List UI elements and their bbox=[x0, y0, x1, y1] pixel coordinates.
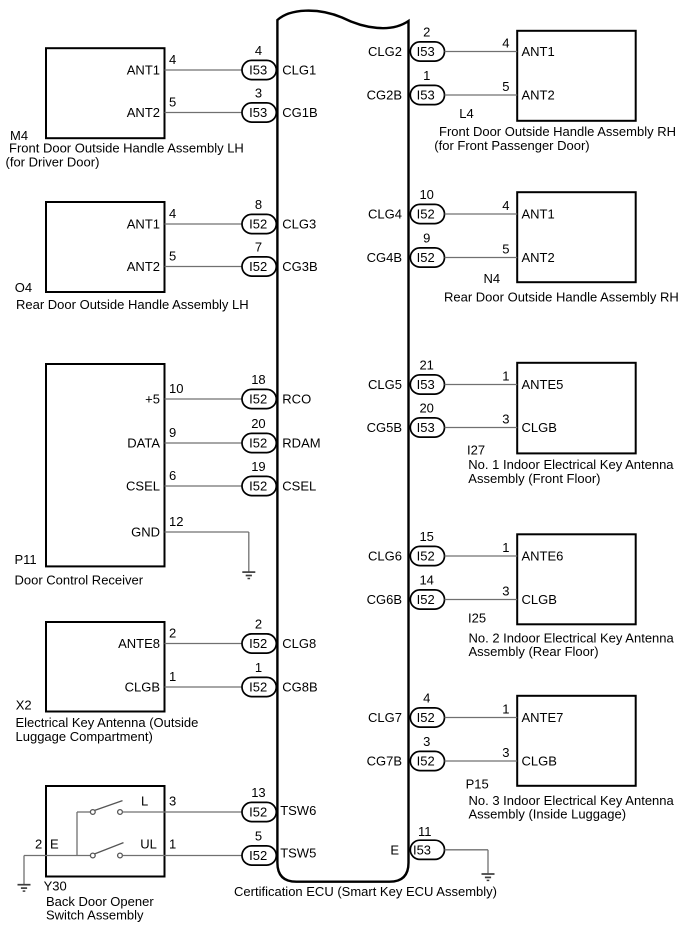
ground at P11 GND bbox=[242, 572, 255, 578]
svg-text:1: 1 bbox=[502, 369, 509, 384]
wire X2 CLGB to ECU CG8B bbox=[165, 686, 243, 688]
svg-text:19: 19 bbox=[251, 459, 265, 474]
svg-text:I53: I53 bbox=[413, 842, 431, 857]
wire M4 ANT2 to ECU CG1B bbox=[165, 112, 243, 114]
wire ECU CLG4 to N4 ANT1 bbox=[445, 213, 518, 215]
svg-text:I53: I53 bbox=[249, 63, 267, 78]
svg-text:3: 3 bbox=[502, 412, 509, 427]
connector oval I52 at ECU pin CG7B bbox=[410, 751, 444, 770]
svg-text:Switch Assembly: Switch Assembly bbox=[46, 908, 144, 923]
svg-text:2: 2 bbox=[169, 626, 176, 641]
svg-text:20: 20 bbox=[251, 416, 265, 431]
svg-text:I53: I53 bbox=[249, 105, 267, 120]
svg-text:4: 4 bbox=[169, 206, 176, 221]
svg-text:I52: I52 bbox=[249, 392, 267, 407]
component Y30: Back Door Opener Switch Assembly (box) bbox=[46, 786, 165, 877]
wire ECU CG7B to P15 CLGB bbox=[445, 760, 518, 762]
svg-text:I52: I52 bbox=[249, 636, 267, 651]
svg-text:3: 3 bbox=[423, 734, 430, 749]
svg-text:13: 13 bbox=[251, 785, 265, 800]
connector oval I53 at ECU pin CLG1 bbox=[242, 60, 276, 79]
svg-text:I25: I25 bbox=[468, 610, 486, 625]
wire switch L to box edge bbox=[122, 811, 164, 813]
svg-text:X2: X2 bbox=[16, 697, 32, 712]
connector oval I53 at ECU pin CLG5 bbox=[410, 375, 444, 394]
wire E common entering Y30 (from ground) bbox=[24, 855, 90, 857]
svg-text:5: 5 bbox=[169, 249, 176, 264]
svg-text:1: 1 bbox=[169, 837, 176, 852]
svg-text:CG1B: CG1B bbox=[282, 105, 317, 120]
svg-text:9: 9 bbox=[423, 231, 430, 246]
svg-text:CLG4: CLG4 bbox=[368, 207, 402, 222]
component L4: Front Door Outside Handle Assembly RH (box) bbox=[517, 31, 636, 121]
wire switch UL to box edge bbox=[122, 855, 164, 857]
svg-text:I52: I52 bbox=[417, 710, 435, 725]
svg-text:1: 1 bbox=[423, 68, 430, 83]
svg-text:(for Driver Door): (for Driver Door) bbox=[6, 155, 100, 170]
svg-text:CG7B: CG7B bbox=[367, 754, 402, 769]
svg-text:3: 3 bbox=[502, 745, 509, 760]
wire ECU E to ground bbox=[445, 849, 489, 851]
svg-text:RCO: RCO bbox=[282, 392, 311, 407]
svg-text:ANT1: ANT1 bbox=[127, 62, 160, 77]
svg-text:E: E bbox=[390, 843, 399, 858]
svg-text:CG3B: CG3B bbox=[282, 259, 317, 274]
wire M4 ANT1 to ECU CLG1 bbox=[165, 69, 243, 71]
wire Y30 None to ECU TSW6 bbox=[165, 811, 243, 813]
svg-text:CLGB: CLGB bbox=[522, 420, 557, 435]
svg-text:4: 4 bbox=[255, 43, 262, 58]
svg-text:UL: UL bbox=[140, 837, 157, 852]
svg-text:CLG2: CLG2 bbox=[368, 44, 402, 59]
svg-text:DATA: DATA bbox=[127, 435, 160, 450]
connector oval I52 at ECU pin CG6B bbox=[410, 590, 444, 609]
connector oval I52 at ECU pin TSW5 bbox=[242, 846, 276, 865]
svg-text:I52: I52 bbox=[249, 217, 267, 232]
wire O4 ANT1 to ECU CLG3 bbox=[165, 223, 243, 225]
svg-text:ANTE8: ANTE8 bbox=[118, 636, 160, 651]
svg-text:TSW6: TSW6 bbox=[280, 803, 316, 818]
svg-text:No. 1 Indoor Electrical Key An: No. 1 Indoor Electrical Key Antenna bbox=[468, 457, 674, 472]
svg-text:+5: +5 bbox=[145, 391, 160, 406]
component P15: No.3 Indoor Electrical Key Antenna Assembly (box) bbox=[517, 696, 636, 786]
connector oval I52 at ECU pin CG3B bbox=[242, 257, 276, 276]
svg-text:CLG7: CLG7 bbox=[368, 710, 402, 725]
connector oval I52 at ECU pin CLG7 bbox=[410, 708, 444, 727]
svg-text:18: 18 bbox=[251, 372, 265, 387]
svg-text:Rear Door Outside Handle Assem: Rear Door Outside Handle Assembly LH bbox=[16, 297, 249, 312]
svg-text:4: 4 bbox=[502, 36, 509, 51]
svg-text:6: 6 bbox=[169, 468, 176, 483]
svg-text:11: 11 bbox=[418, 824, 432, 839]
svg-text:3: 3 bbox=[502, 584, 509, 599]
svg-text:ANT2: ANT2 bbox=[522, 250, 555, 265]
ground at Y30 pin E bbox=[18, 885, 31, 891]
connector oval I52 at ECU pin CSEL bbox=[242, 476, 276, 495]
svg-text:(for Front Passenger Door): (for Front Passenger Door) bbox=[434, 138, 589, 153]
svg-text:CLG1: CLG1 bbox=[282, 63, 316, 78]
component P11: Door Control Receiver (box) bbox=[46, 364, 165, 566]
ECU U1: Certification ECU (Smart Key ECU Assembly) body outline bbox=[277, 11, 408, 882]
svg-text:Front Door Outside Handle Asse: Front Door Outside Handle Assembly RH bbox=[439, 124, 676, 139]
svg-text:10: 10 bbox=[419, 187, 433, 202]
wire to switch L left contact bbox=[77, 811, 90, 813]
svg-text:CG4B: CG4B bbox=[367, 250, 402, 265]
svg-text:L4: L4 bbox=[459, 106, 473, 121]
connector oval I53 at ECU pin CLG2 bbox=[410, 42, 444, 61]
connector oval I53 at ECU pin E bbox=[410, 840, 444, 859]
svg-text:2: 2 bbox=[423, 25, 430, 40]
wire ECU CLG7 to P15 ANTE7 bbox=[445, 717, 518, 719]
wire ECU CLG5 to I27 ANTE5 bbox=[445, 384, 518, 386]
component I27: No.1 Indoor Electrical Key Antenna Assembly (box) bbox=[517, 363, 636, 454]
label L4 / Front Door Outside Handle Assembly RH (for Front Passenger Door) bbox=[434, 106, 676, 153]
svg-text:I27: I27 bbox=[467, 442, 485, 457]
svg-text:Electrical Key Antenna (Outsid: Electrical Key Antenna (Outside bbox=[16, 715, 199, 730]
svg-text:CG5B: CG5B bbox=[367, 420, 402, 435]
svg-text:ANTE6: ANTE6 bbox=[522, 548, 564, 563]
svg-text:CG6B: CG6B bbox=[367, 592, 402, 607]
svg-text:L: L bbox=[141, 794, 148, 809]
svg-text:I52: I52 bbox=[249, 680, 267, 695]
svg-text:I53: I53 bbox=[417, 44, 435, 59]
wire ECU CLG2 to L4 ANT1 bbox=[445, 51, 518, 53]
svg-text:ANT1: ANT1 bbox=[127, 216, 160, 231]
svg-text:Rear Door Outside Handle Assem: Rear Door Outside Handle Assembly RH bbox=[444, 289, 679, 304]
svg-text:Y30: Y30 bbox=[44, 879, 67, 894]
connector oval I53 at ECU pin CG5B bbox=[410, 418, 444, 437]
svg-text:4: 4 bbox=[502, 198, 509, 213]
svg-text:Assembly (Inside Luggage): Assembly (Inside Luggage) bbox=[469, 807, 627, 822]
svg-text:3: 3 bbox=[255, 86, 262, 101]
svg-text:CG8B: CG8B bbox=[282, 680, 317, 695]
svg-text:CLG6: CLG6 bbox=[368, 549, 402, 564]
svg-text:TSW5: TSW5 bbox=[280, 846, 316, 861]
svg-text:Luggage Compartment): Luggage Compartment) bbox=[16, 729, 153, 744]
svg-text:I52: I52 bbox=[249, 848, 267, 863]
svg-text:20: 20 bbox=[419, 401, 433, 416]
svg-text:CSEL: CSEL bbox=[126, 478, 160, 493]
svg-text:1: 1 bbox=[255, 660, 262, 675]
svg-text:ANT2: ANT2 bbox=[127, 105, 160, 120]
svg-text:RDAM: RDAM bbox=[282, 436, 320, 451]
svg-text:10: 10 bbox=[169, 381, 183, 396]
component N4: Rear Door Outside Handle Assembly RH (box) bbox=[517, 192, 636, 282]
svg-text:4: 4 bbox=[169, 52, 176, 67]
component X2: Electrical Key Antenna Outside Luggage (box) bbox=[46, 622, 165, 712]
connector oval I52 at ECU pin CLG3 bbox=[242, 214, 276, 233]
svg-text:1: 1 bbox=[502, 702, 509, 717]
connector oval I53 at ECU pin CG2B bbox=[410, 85, 444, 104]
svg-text:Assembly (Rear Floor): Assembly (Rear Floor) bbox=[469, 644, 599, 659]
svg-text:I52: I52 bbox=[417, 592, 435, 607]
wire ECU CG6B to I25 CLGB bbox=[445, 599, 518, 601]
connector oval I52 at ECU pin CG8B bbox=[242, 677, 276, 696]
label P15 / No. 3 Indoor Electrical Key Antenna Assembly (Inside Luggage) bbox=[466, 776, 675, 821]
switch L (upper) of Y30 bbox=[90, 801, 122, 815]
component O4: Rear Door Outside Handle Assembly LH (box) bbox=[46, 202, 165, 292]
svg-text:ANT1: ANT1 bbox=[522, 44, 555, 59]
svg-text:I53: I53 bbox=[417, 377, 435, 392]
wire P11 +5 to ECU RCO bbox=[165, 398, 243, 400]
wire common vertical inside Y30 bbox=[76, 812, 78, 856]
svg-text:ANTE5: ANTE5 bbox=[522, 377, 564, 392]
svg-text:ANTE7: ANTE7 bbox=[522, 710, 564, 725]
svg-text:I52: I52 bbox=[249, 479, 267, 494]
svg-text:CLGB: CLGB bbox=[522, 592, 557, 607]
svg-text:15: 15 bbox=[419, 529, 433, 544]
svg-text:1: 1 bbox=[169, 669, 176, 684]
svg-text:P15: P15 bbox=[466, 776, 489, 791]
svg-text:I52: I52 bbox=[249, 436, 267, 451]
connector oval I52 at ECU pin CLG6 bbox=[410, 546, 444, 565]
svg-text:GND: GND bbox=[131, 524, 160, 539]
svg-text:2: 2 bbox=[255, 617, 262, 632]
wire ECU CLG6 to I25 ANTE6 bbox=[445, 555, 518, 557]
svg-text:9: 9 bbox=[169, 425, 176, 440]
svg-text:5: 5 bbox=[502, 242, 509, 257]
component I25: No.2 Indoor Electrical Key Antenna Assembly (box) bbox=[517, 534, 636, 624]
svg-text:Assembly (Front Floor): Assembly (Front Floor) bbox=[468, 471, 600, 486]
svg-text:CLG8: CLG8 bbox=[282, 636, 316, 651]
svg-text:CLGB: CLGB bbox=[522, 753, 557, 768]
wire ECU CG4B to N4 ANT2 bbox=[445, 257, 518, 259]
svg-text:3: 3 bbox=[169, 794, 176, 809]
label O4 / Rear Door Outside Handle Assembly LH bbox=[15, 280, 249, 312]
wire P11 DATA to ECU RDAM bbox=[165, 442, 243, 444]
svg-text:5: 5 bbox=[169, 95, 176, 110]
wire Y30 None to ECU TSW5 bbox=[165, 855, 243, 857]
svg-text:ANT2: ANT2 bbox=[127, 259, 160, 274]
wire O4 ANT2 to ECU CG3B bbox=[165, 266, 243, 268]
svg-text:4: 4 bbox=[423, 691, 430, 706]
svg-text:I52: I52 bbox=[249, 805, 267, 820]
wire ECU CG2B to L4 ANT2 bbox=[445, 94, 518, 96]
svg-text:E: E bbox=[50, 837, 59, 852]
label M4 / Front Door Outside Handle Assembly LH (for Driver Door) bbox=[6, 128, 244, 170]
svg-text:1: 1 bbox=[502, 540, 509, 555]
wire X2 ANTE8 to ECU CLG8 bbox=[165, 643, 243, 645]
label P11 / Door Control Receiver bbox=[15, 552, 144, 588]
connector oval I52 at ECU pin RDAM bbox=[242, 433, 276, 452]
svg-text:I52: I52 bbox=[417, 207, 435, 222]
connector oval I52 at ECU pin TSW6 bbox=[242, 802, 276, 821]
svg-text:P11: P11 bbox=[15, 552, 37, 567]
svg-text:21: 21 bbox=[419, 358, 433, 373]
svg-text:I53: I53 bbox=[417, 420, 435, 435]
connector oval I52 at ECU pin CLG4 bbox=[410, 204, 444, 223]
connector oval I52 at ECU pin CG4B bbox=[410, 248, 444, 267]
label X2 / Electrical Key Antenna (Outside Luggage Compartment) bbox=[16, 697, 199, 744]
svg-text:CLGB: CLGB bbox=[125, 679, 160, 694]
connector oval I52 at ECU pin CLG8 bbox=[242, 634, 276, 653]
switch UL (lower) of Y30 bbox=[90, 843, 123, 858]
label I25 / No. 2 Indoor Electrical Key Antenna Assembly (Rear Floor) bbox=[468, 610, 675, 659]
svg-text:CLG3: CLG3 bbox=[282, 217, 316, 232]
label I27 / No. 1 Indoor Electrical Key Antenna Assembly (Front Floor) bbox=[467, 442, 674, 486]
connector oval I52 at ECU pin RCO bbox=[242, 389, 276, 408]
svg-text:I52: I52 bbox=[417, 250, 435, 265]
wire P11 GND to ground bbox=[165, 531, 249, 533]
svg-text:CLG5: CLG5 bbox=[368, 377, 402, 392]
svg-text:7: 7 bbox=[255, 240, 262, 255]
label Y30 / Back Door Opener Switch Assembly bbox=[44, 879, 155, 923]
svg-text:2: 2 bbox=[35, 837, 42, 852]
svg-text:14: 14 bbox=[419, 573, 433, 588]
wire P11 CSEL to ECU CSEL bbox=[165, 485, 243, 487]
component M4: Front Door Outside Handle Assembly LH (box) bbox=[46, 48, 165, 138]
svg-text:5: 5 bbox=[255, 829, 262, 844]
svg-text:Door Control Receiver: Door Control Receiver bbox=[15, 573, 144, 588]
svg-text:CSEL: CSEL bbox=[282, 479, 316, 494]
svg-text:I53: I53 bbox=[417, 88, 435, 103]
svg-text:Certification ECU (Smart Key E: Certification ECU (Smart Key ECU Assembl… bbox=[234, 884, 497, 899]
svg-text:I52: I52 bbox=[249, 259, 267, 274]
svg-text:8: 8 bbox=[255, 197, 262, 212]
connector oval I53 at ECU pin CG1B bbox=[242, 103, 276, 122]
label N4 / Rear Door Outside Handle Assembly RH bbox=[444, 271, 679, 305]
svg-text:I52: I52 bbox=[417, 549, 435, 564]
wire ECU CG5B to I27 CLGB bbox=[445, 427, 518, 429]
svg-text:I52: I52 bbox=[417, 754, 435, 769]
svg-text:ANT2: ANT2 bbox=[522, 87, 555, 102]
svg-text:N4: N4 bbox=[484, 271, 501, 286]
svg-text:ANT1: ANT1 bbox=[522, 206, 555, 221]
svg-text:12: 12 bbox=[169, 514, 183, 529]
svg-text:O4: O4 bbox=[15, 280, 32, 295]
svg-text:CG2B: CG2B bbox=[367, 88, 402, 103]
svg-text:Front Door Outside Handle Asse: Front Door Outside Handle Assembly LH bbox=[9, 141, 244, 156]
ground at ECU pin E bbox=[482, 874, 495, 880]
svg-text:5: 5 bbox=[502, 79, 509, 94]
